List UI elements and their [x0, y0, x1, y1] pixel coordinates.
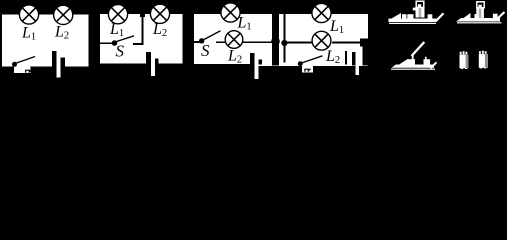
battery (D): white slit — [356, 52, 359, 75]
battery (B): plate black bar — [146, 52, 151, 64]
base band (slab edge) — [456, 18, 500, 22]
open lever — [412, 42, 425, 56]
switch S (B): hook wire — [133, 43, 144, 45]
lamp L2 (A) — [54, 5, 73, 24]
handle loop — [477, 2, 484, 8]
switch S (B): pivot dot — [112, 40, 118, 46]
base band (slab edge) — [389, 19, 437, 23]
panel D card — [302, 66, 313, 73]
panel A card — [2, 14, 89, 73]
battery (B): white slit — [151, 52, 155, 76]
junction bump (D) — [360, 39, 368, 47]
wire to switch (B) — [100, 42, 113, 44]
battery (A): right plate stub — [61, 58, 65, 67]
post block 2 — [428, 14, 433, 18]
wedge — [399, 59, 409, 64]
battery (D): long thin plate — [345, 51, 347, 65]
wire lamp L2 to bar (C) — [243, 41, 273, 43]
lamp L2 (C) on mid wire — [225, 31, 243, 49]
wire left of switch (C) — [194, 41, 201, 43]
right vertical bar wire (D) — [363, 39, 369, 66]
cell 2 feet — [480, 68, 482, 69]
right corner slant — [497, 12, 505, 20]
cell 1 feet — [461, 68, 463, 69]
switch S (B): blade — [117, 36, 135, 42]
right corner slant — [436, 13, 444, 21]
lamp L1 (D) — [312, 3, 331, 22]
junction dot (D) — [281, 40, 287, 46]
switch S (C): contact wire — [216, 41, 225, 43]
base band (slab edge) — [392, 65, 435, 68]
divider wire between branches (B) — [141, 14, 143, 45]
post block 1 — [475, 14, 482, 18]
svg-text:S: S — [116, 42, 125, 61]
wire left to lamp L2 (D) — [285, 42, 314, 44]
cell 2 nubs — [479, 51, 481, 54]
cell 1 body — [460, 55, 469, 69]
pin 1 — [412, 55, 414, 59]
divider top junction blob (B) — [140, 14, 145, 17]
base front lower line — [391, 69, 435, 70]
wire lamp L2 to bar (D) — [332, 42, 361, 44]
cell 2 body — [479, 54, 488, 68]
switch S (A): blade — [17, 57, 36, 64]
switch S (A): clipped label s — [26, 70, 32, 73]
battery (C): right plate stub — [259, 60, 263, 65]
wedge (closed blade) — [392, 13, 402, 19]
battery (B): right plate stub — [155, 59, 159, 64]
lamp L1 (A) — [19, 5, 38, 24]
battery (A): plate black bar — [52, 51, 57, 67]
lamp L2 (B) — [150, 4, 169, 23]
battery (A): white slit (long plate gap) — [57, 51, 61, 78]
switch S (C): blade — [204, 31, 221, 40]
base front lower line — [457, 22, 502, 23]
junction bump (C) — [271, 37, 280, 46]
handle cylinder — [476, 8, 484, 18]
right corner slant — [431, 62, 437, 68]
lamp L2 (D) on mid wire — [312, 31, 331, 50]
circuit D left border wire — [283, 14, 285, 62]
post block 1 — [407, 14, 413, 18]
handle cylinder — [416, 8, 425, 18]
lamp L1 (B) — [108, 5, 127, 24]
wedge (closed blade) — [464, 13, 471, 18]
pin 2 — [425, 57, 427, 60]
post block 1 — [407, 59, 415, 64]
switch S (D): clipped label s — [305, 69, 311, 72]
panel B card — [100, 14, 183, 63]
battery (C): plate black bar — [250, 53, 255, 65]
post block 2 — [424, 59, 431, 64]
cell 1 nubs — [460, 52, 462, 55]
switch S (D): pivot dot — [298, 61, 303, 66]
post block 2 — [493, 14, 498, 18]
lamp L1 (C) — [221, 3, 240, 22]
base front lower line — [389, 23, 436, 24]
post cap — [413, 8, 416, 11]
switch S (C): pivot dot — [199, 38, 204, 43]
battery (C): white slit — [255, 53, 259, 79]
switch S (A): pivot dot — [12, 62, 17, 67]
switch S (D): blade — [302, 56, 323, 63]
right vertical bar wire (C) — [272, 14, 279, 65]
panel C card — [194, 14, 368, 64]
handle loop — [416, 1, 424, 7]
svg-text:S: S — [201, 41, 210, 60]
battery (D): short thick plate — [352, 52, 356, 66]
